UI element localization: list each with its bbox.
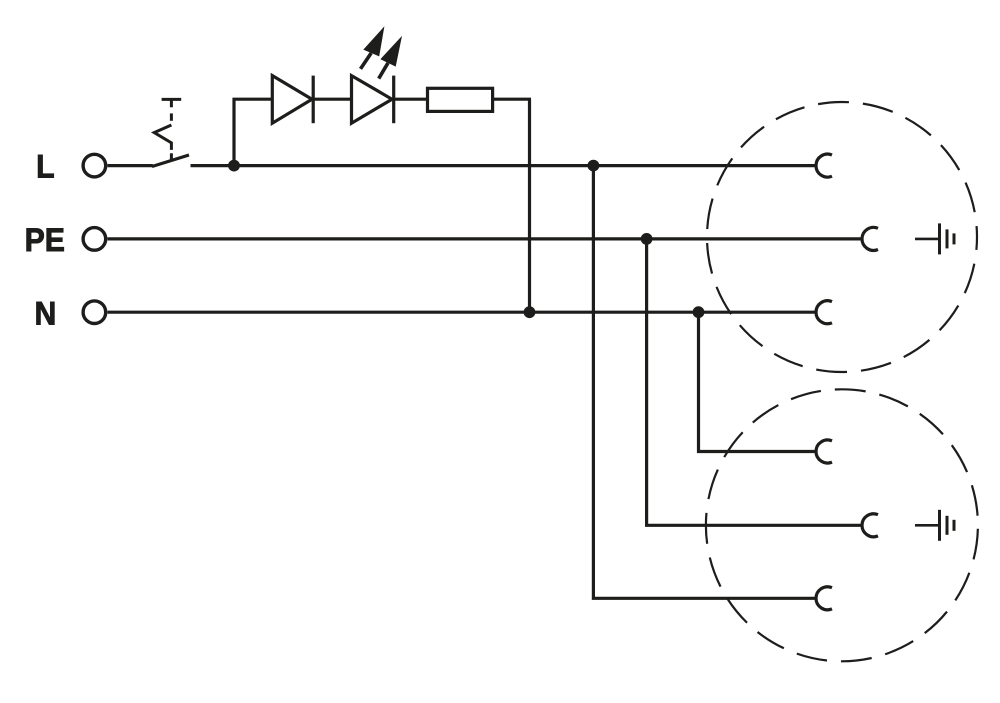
socket 2 contact PE: [862, 514, 878, 537]
socket 1 contact N: [816, 301, 832, 324]
svg-text:N: N: [34, 295, 56, 331]
wire from N junction down to socket 2 top contact: [699, 312, 817, 451]
terminal N: [83, 301, 106, 324]
switch S1 blade: [152, 155, 189, 167]
socket 2 contact bottom: [816, 587, 832, 610]
terminal L: [83, 154, 106, 177]
wire lamp branch vertical up: [232, 98, 235, 164]
wire from L junction down to socket 2 bottom contact: [593, 166, 816, 599]
resistor R1: [428, 88, 493, 111]
svg-text:L: L: [36, 149, 54, 185]
LED V2: [352, 76, 394, 124]
socket 1 outline (dashed circle): [707, 102, 977, 372]
wire lamp branch top: [233, 98, 272, 101]
socket 2 outline (dashed circle): [706, 389, 978, 661]
wire LED to resistor: [394, 98, 428, 101]
wire between diode and LED: [313, 98, 351, 101]
wire resistor to corner: [493, 98, 531, 101]
socket 1 contact PE: [862, 227, 878, 250]
junction on L to lamp branch: [228, 160, 240, 172]
wire from PE junction down to socket 2 middle contact: [647, 239, 862, 525]
socket 1 contact L: [816, 154, 832, 177]
junction on L to socket 2: [588, 160, 600, 172]
wire N main run: [108, 311, 817, 314]
svg-text:PE: PE: [25, 222, 65, 258]
wire branch down to N: [528, 99, 531, 312]
socket 1 earth symbol: [915, 223, 954, 254]
junction on N to socket 2: [693, 306, 705, 318]
socket 2 contact top: [816, 440, 832, 463]
terminal PE: [83, 228, 106, 251]
junction on PE: [641, 233, 653, 245]
wire PE main run: [108, 237, 863, 240]
wire L main run: [191, 164, 817, 167]
diode V1: [272, 76, 313, 124]
socket 2 earth symbol: [915, 510, 954, 541]
junction branch on N: [524, 306, 536, 318]
wire L from terminal to switch: [108, 164, 153, 167]
LED emission arrows: [361, 26, 403, 78]
switch S1 actuator (thermal trip with spring): [154, 99, 181, 160]
